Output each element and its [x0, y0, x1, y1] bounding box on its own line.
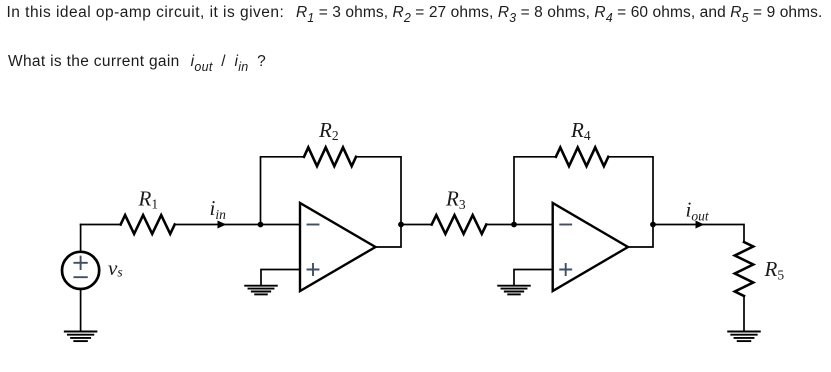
resistor R5 — [735, 242, 753, 296]
wire R4 to node D — [608, 157, 653, 225]
svg-text:iin: iin — [210, 196, 227, 222]
ground below R5 — [728, 332, 760, 342]
node D junction dot — [650, 222, 656, 228]
op-amp U2 — [553, 203, 628, 291]
svg-text:vs: vs — [108, 256, 123, 280]
resistor R2 — [304, 147, 356, 166]
wire node C up to R4 — [514, 157, 556, 225]
wire node D to R5 top corner — [653, 225, 744, 243]
wire R1 to node A — [175, 224, 261, 226]
current arrow i_in — [218, 221, 227, 229]
voltage source Vs — [62, 252, 99, 289]
svg-text:R5: R5 — [764, 257, 785, 282]
wire R3 to node C — [486, 224, 514, 226]
svg-text:R2: R2 — [318, 118, 339, 143]
wire U2 output to node D — [628, 225, 653, 248]
wire node B to R3 — [401, 224, 432, 226]
wire node A to op-amp U1 minus input — [261, 224, 301, 226]
svg-text:iout: iout — [686, 198, 710, 224]
node A junction dot — [258, 222, 264, 228]
resistor R1 — [121, 215, 175, 234]
ground at U1 plus input — [245, 286, 277, 295]
resistor R3 — [432, 215, 487, 234]
resistor R4 — [556, 147, 608, 166]
wire U1 output to node B — [376, 225, 402, 248]
op-amp U1 — [300, 203, 376, 291]
label vs — [108, 256, 123, 280]
wire R5 to ground — [743, 296, 745, 331]
current arrow i_out — [696, 221, 705, 229]
wire Vs bottom to ground — [80, 289, 82, 331]
svg-text:R4: R4 — [570, 118, 591, 143]
wire U2 plus input to ground — [514, 270, 553, 286]
wire U1 plus input to ground — [261, 270, 300, 286]
ground below Vs — [65, 332, 97, 342]
wire node C to op-amp U2 minus input — [514, 224, 553, 226]
wire R2 to output node B — [356, 157, 401, 225]
wire node A up to R2 — [261, 157, 305, 225]
wire from Vs top to rail — [80, 225, 82, 252]
node B junction dot — [398, 222, 404, 228]
svg-text:R1: R1 — [138, 186, 159, 211]
svg-text:R3: R3 — [445, 187, 466, 212]
node C junction dot — [511, 222, 517, 228]
wire rail to R1 — [81, 224, 121, 226]
ground at U2 plus input — [498, 286, 530, 295]
